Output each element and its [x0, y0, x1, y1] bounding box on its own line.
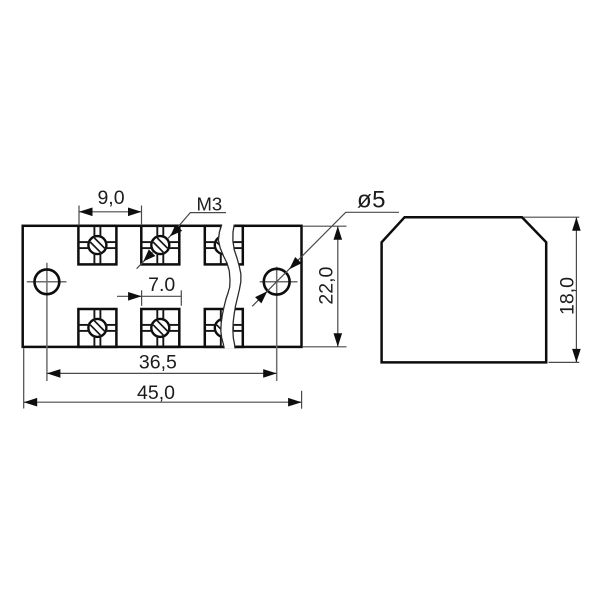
right mounting hole centerlines	[260, 267, 298, 381]
screw terminal bottom 1	[78, 309, 116, 347]
hole diameter label ø5 with leader	[252, 187, 399, 307]
svg-text:ø5: ø5	[357, 187, 386, 214]
svg-text:7.0: 7.0	[148, 274, 175, 296]
dimension 7.0	[117, 274, 181, 306]
break line (broken-out section)	[218, 225, 241, 349]
right mounting hole (o5)	[264, 269, 290, 295]
svg-text:45,0: 45,0	[137, 382, 175, 404]
screw terminal top 2	[141, 226, 179, 265]
svg-text:22,0: 22,0	[316, 266, 338, 304]
thread label M3 with leader	[137, 194, 226, 269]
dimension 18,0 (height)	[524, 217, 581, 362]
screw terminal bottom 3	[205, 309, 243, 347]
screw terminal bottom 2	[141, 309, 179, 347]
svg-text:9,0: 9,0	[97, 187, 124, 209]
dimension 22,0 (body width)	[303, 226, 347, 347]
dimension 9,0 (terminal pitch)	[79, 187, 142, 226]
screw terminal top 1	[78, 226, 116, 265]
screw terminal top 3	[205, 226, 243, 265]
dimension 36,5 (hole spacing)	[47, 352, 277, 378]
left mounting hole (o5)	[35, 269, 60, 294]
terminal block body (top view)	[23, 226, 302, 347]
dimension 45,0 (body length)	[24, 348, 302, 408]
svg-text:36,5: 36,5	[139, 352, 177, 374]
end view outline (chamfered block)	[382, 217, 547, 362]
left mounting hole centerlines	[27, 263, 67, 381]
svg-text:M3: M3	[197, 194, 223, 215]
svg-text:18,0: 18,0	[556, 277, 578, 315]
